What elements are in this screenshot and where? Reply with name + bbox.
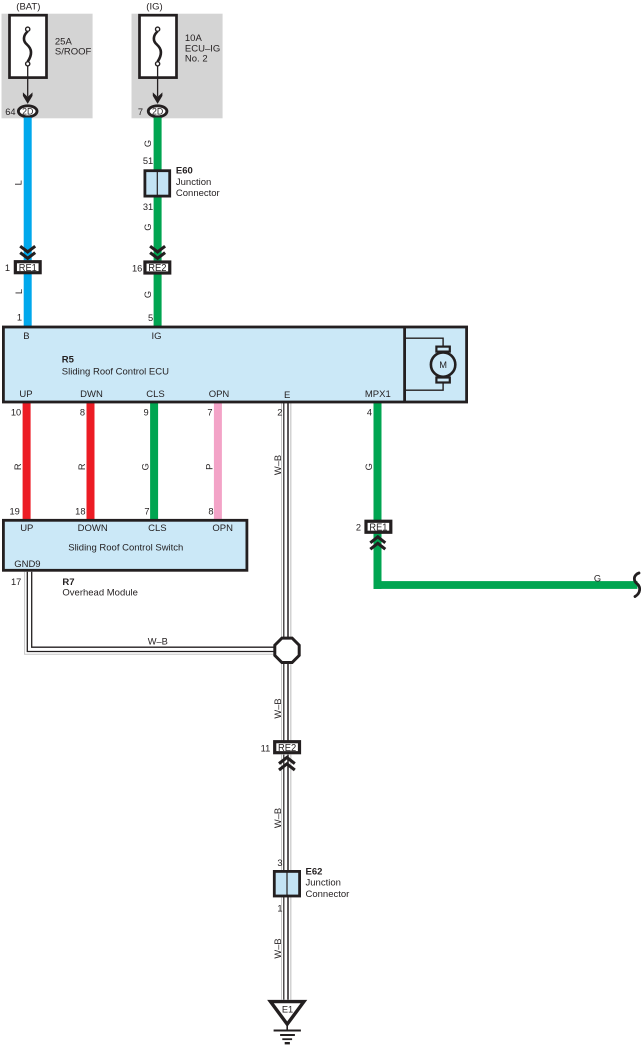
- svg-text:1: 1: [5, 263, 10, 273]
- svg-text:(IG): (IG): [146, 1, 162, 12]
- switch pin label DOWN: [78, 523, 108, 534]
- pin 19: [9, 506, 19, 516]
- svg-text:(BAT): (BAT): [16, 1, 40, 12]
- relay block connector RE1 (MPX1 wire): [366, 521, 391, 533]
- connector 2D (IG): [148, 106, 167, 117]
- chevron arrow up out of RE2: [279, 758, 295, 771]
- svg-text:R: R: [77, 463, 87, 470]
- svg-text:Overhead Module: Overhead Module: [62, 588, 138, 599]
- switch pin label GND9: [14, 559, 40, 570]
- svg-text:GND9: GND9: [14, 559, 40, 570]
- svg-text:G: G: [594, 573, 601, 583]
- switch pin label UP: [20, 523, 33, 534]
- pin 11 at RE2: [261, 743, 271, 753]
- svg-text:RE1: RE1: [19, 263, 37, 274]
- svg-text:2D: 2D: [22, 107, 33, 117]
- pin 1 at RE1: [5, 263, 10, 273]
- pin 7 switch: [144, 506, 149, 516]
- chevron arrow down into RE2 (IG wire): [150, 246, 165, 258]
- svg-text:E: E: [284, 390, 290, 401]
- svg-text:MPX1: MPX1: [365, 389, 391, 400]
- svg-text:OPN: OPN: [212, 523, 233, 534]
- ECU pin label MPX1: [365, 389, 391, 400]
- svg-text:Sliding Roof Control Switch: Sliding Roof Control Switch: [68, 543, 183, 554]
- label R5 Sliding Roof Control ECU: [62, 354, 169, 377]
- wire label G lower: [143, 291, 153, 298]
- relay block connector RE1 (BAT wire): [15, 262, 40, 274]
- svg-text:W–B: W–B: [148, 636, 168, 646]
- ground stem: [286, 1025, 288, 1030]
- svg-text:DWN: DWN: [80, 389, 103, 400]
- svg-text:R5: R5: [62, 354, 75, 365]
- switch pin label OPN: [212, 523, 233, 534]
- pin 2: [277, 408, 282, 418]
- label Sliding Roof Control Switch: [68, 543, 183, 554]
- ECU pin label DWN: [80, 389, 103, 400]
- wire G green from 2D to ECU pin IG: [154, 118, 162, 328]
- svg-text:Junction: Junction: [306, 878, 341, 889]
- svg-text:P: P: [205, 464, 215, 470]
- pin 10: [11, 408, 21, 418]
- value label 10A ECU-IG No.2: [185, 33, 220, 64]
- wire label W-B horizontal: [148, 636, 168, 646]
- svg-text:10: 10: [11, 408, 21, 418]
- wire W-B from ECU pin E to octagon and RE2: [282, 400, 291, 741]
- switch box Sliding Roof Control Switch: [3, 520, 247, 570]
- svg-text:RE2: RE2: [278, 743, 296, 754]
- svg-text:Connector: Connector: [176, 188, 220, 199]
- svg-text:S/ROOF: S/ROOF: [55, 46, 92, 57]
- svg-text:No. 2: No. 2: [185, 53, 208, 64]
- svg-text:7: 7: [207, 408, 212, 418]
- value label 25A S/ROOF: [55, 37, 92, 58]
- svg-text:G: G: [364, 463, 374, 470]
- junction connector E60: [145, 171, 170, 196]
- junction node octagon: [275, 638, 299, 662]
- pin 8: [80, 408, 85, 418]
- svg-text:16: 16: [132, 264, 142, 274]
- chevron arrow up out of RE1 (MPX1 wire): [370, 537, 385, 549]
- wire P pink OPN: [214, 400, 222, 523]
- pin 31: [143, 202, 153, 212]
- svg-text:Junction: Junction: [176, 177, 211, 188]
- pin 1 at E62: [277, 903, 282, 913]
- wire R red DWN: [87, 400, 95, 523]
- svg-text:W–B: W–B: [273, 808, 283, 828]
- svg-text:E60: E60: [176, 165, 193, 176]
- pin 7: [207, 408, 212, 418]
- svg-text:M: M: [439, 360, 447, 370]
- wire label W-B above E62: [273, 808, 283, 828]
- svg-text:G: G: [143, 140, 153, 147]
- ground bar 1: [274, 1030, 301, 1032]
- svg-text:9: 9: [144, 408, 149, 418]
- ground bar 3: [282, 1038, 292, 1040]
- connector 2D (BAT): [18, 106, 37, 117]
- ground bar 2: [280, 1034, 295, 1036]
- wire label G upper 2: [143, 224, 153, 231]
- wire fuse BAT to connector: [27, 66, 29, 97]
- svg-text:18: 18: [75, 506, 85, 516]
- ground bar 4: [285, 1042, 290, 1044]
- svg-text:UP: UP: [19, 389, 32, 400]
- svg-text:RE1: RE1: [369, 522, 387, 533]
- wire G green MPX1 vertical: [374, 400, 382, 589]
- svg-text:51: 51: [143, 156, 153, 166]
- motor M inside ECU: [406, 338, 455, 390]
- wire label G (MPX1): [364, 463, 374, 470]
- label (IG): [146, 1, 162, 12]
- svg-text:3: 3: [277, 858, 282, 868]
- svg-text:E62: E62: [306, 867, 323, 878]
- wire label G (CLS): [141, 463, 151, 470]
- junction connector E62: [274, 871, 299, 896]
- wire fuse IG to connector: [157, 66, 159, 97]
- fuse 10A ECU-IG No.2: [140, 15, 177, 77]
- svg-text:11: 11: [261, 743, 271, 753]
- label R7 Overhead Module: [62, 577, 138, 599]
- wire G green CLS: [150, 400, 158, 523]
- label E62 Junction Connector: [306, 867, 350, 900]
- svg-text:DOWN: DOWN: [78, 523, 108, 534]
- svg-text:L: L: [14, 289, 24, 294]
- fuse 25A S/ROOF: [10, 15, 47, 77]
- pin 1 at ECU B: [17, 312, 22, 322]
- wire label W-B (E): [273, 455, 283, 475]
- svg-text:17: 17: [11, 577, 21, 587]
- wire label G at page edge: [594, 573, 601, 583]
- svg-text:8: 8: [80, 408, 85, 418]
- svg-text:G: G: [143, 291, 153, 298]
- svg-text:CLS: CLS: [148, 523, 166, 534]
- svg-text:1: 1: [277, 903, 282, 913]
- pin 18: [75, 506, 85, 516]
- wire W-B from RE2 to ground E1: [282, 755, 291, 1000]
- svg-text:R: R: [13, 463, 23, 470]
- svg-text:G: G: [143, 224, 153, 231]
- svg-text:G: G: [141, 463, 151, 470]
- wire label W-B above RE2: [273, 698, 283, 718]
- pin 3 at E62: [277, 858, 282, 868]
- svg-text:4: 4: [367, 408, 372, 418]
- pin 17: [11, 577, 21, 587]
- arrow into connector 2D (BAT): [23, 92, 33, 104]
- svg-text:OPN: OPN: [209, 389, 230, 400]
- svg-text:19: 19: [9, 506, 19, 516]
- ECU pin label CLS: [146, 389, 164, 400]
- svg-text:7: 7: [144, 506, 149, 516]
- label (BAT): [16, 1, 40, 12]
- svg-text:2: 2: [356, 522, 361, 532]
- arrow into connector 2D (IG): [153, 92, 163, 104]
- wire label R (UP): [13, 463, 23, 470]
- svg-text:5: 5: [148, 313, 153, 323]
- svg-text:CLS: CLS: [146, 389, 164, 400]
- svg-text:UP: UP: [20, 523, 33, 534]
- ECU pin label IG: [151, 331, 161, 342]
- wire R red UP: [23, 400, 31, 523]
- wire label R (DWN): [77, 463, 87, 470]
- svg-text:R7: R7: [62, 577, 74, 588]
- chevron arrow down into RE1 (BAT wire): [20, 246, 35, 258]
- svg-text:L: L: [13, 180, 23, 185]
- power source block (IG) gray background: [132, 14, 223, 119]
- svg-text:W–B: W–B: [273, 698, 283, 718]
- wire W-B from switch GND9 pin 17 to octagon: [25, 572, 276, 655]
- relay block connector RE2 (W-B wire): [275, 742, 300, 754]
- svg-text:2D: 2D: [152, 107, 163, 117]
- wire label P (OPN): [205, 464, 215, 470]
- page continuation squiggle: [634, 573, 639, 597]
- pin 9: [144, 408, 149, 418]
- relay block connector RE2 (IG wire): [145, 262, 170, 274]
- svg-text:8: 8: [208, 506, 213, 516]
- pin 64: [5, 107, 15, 117]
- pin 4: [367, 408, 372, 418]
- svg-text:B: B: [23, 331, 29, 342]
- pin 5 at ECU IG: [148, 313, 153, 323]
- wire G green MPX1 horizontal: [374, 581, 638, 589]
- pin 16 at RE2: [132, 264, 142, 274]
- ECU pin label B: [23, 331, 29, 342]
- ECU pin label E: [284, 390, 290, 401]
- svg-text:IG: IG: [151, 331, 161, 342]
- wire L blue from 2D to ECU pin B: [24, 118, 32, 328]
- svg-text:W–B: W–B: [273, 938, 283, 958]
- wire label L lower: [14, 289, 24, 294]
- pin 2 at RE1 MPX1: [356, 522, 361, 532]
- ECU pin label OPN: [209, 389, 230, 400]
- svg-text:1: 1: [17, 312, 22, 322]
- wire label W-B above E1: [273, 938, 283, 958]
- ECU box R5: [3, 327, 466, 402]
- svg-text:64: 64: [5, 107, 15, 117]
- label E60 Junction Connector: [176, 165, 220, 199]
- switch pin label CLS: [148, 523, 166, 534]
- pin 8 switch: [208, 506, 213, 516]
- svg-text:7: 7: [138, 107, 143, 117]
- svg-text:2: 2: [277, 408, 282, 418]
- pin 7: [138, 107, 143, 117]
- svg-text:Connector: Connector: [306, 889, 350, 900]
- svg-text:RE2: RE2: [148, 263, 166, 274]
- power source block (BAT) gray background: [2, 14, 93, 119]
- pin 51: [143, 156, 153, 166]
- ground E1 triangle: [271, 1002, 304, 1025]
- wire label G upper 1: [143, 140, 153, 147]
- svg-text:31: 31: [143, 202, 153, 212]
- wire label L upper: [13, 180, 23, 185]
- svg-text:W–B: W–B: [273, 455, 283, 475]
- svg-text:Sliding Roof Control ECU: Sliding Roof Control ECU: [62, 366, 169, 377]
- svg-text:E1: E1: [282, 1004, 293, 1014]
- ECU pin label UP: [19, 389, 32, 400]
